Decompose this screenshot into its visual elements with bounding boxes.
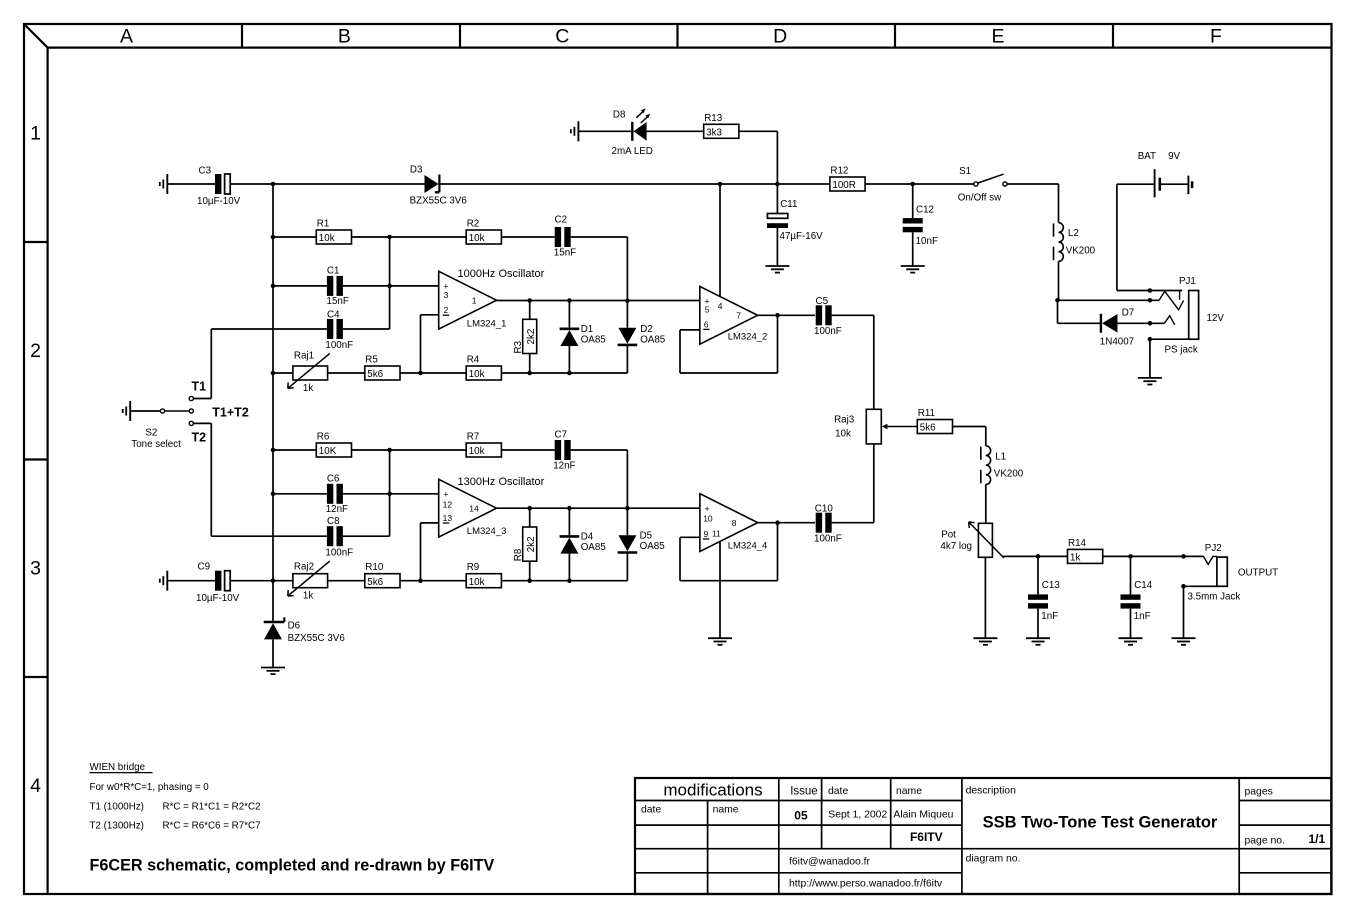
diode D3 zener (410, 164, 468, 206)
wire R12 to S1 (865, 183, 974, 185)
svg-text:100R: 100R (832, 180, 855, 191)
svg-text:R10: R10 (365, 562, 384, 573)
node vert2/C6 (387, 492, 392, 497)
svg-text:C14: C14 (1134, 580, 1153, 591)
wire minus input U3 (421, 523, 439, 581)
svg-text:12nF: 12nF (326, 504, 348, 515)
svg-text:1k: 1k (303, 591, 313, 602)
svg-text:13: 13 (443, 513, 453, 523)
wire U2 output (758, 313, 815, 318)
svg-text:LM324_2: LM324_2 (728, 332, 768, 343)
diode D1 (560, 324, 607, 375)
LED D8 (578, 109, 703, 158)
svg-text:47µF-16V: 47µF-16V (780, 231, 824, 242)
svg-text:1/1: 1/1 (1309, 832, 1326, 846)
svg-text:SSB Two-Tone Test Generator: SSB Two-Tone Test Generator (983, 813, 1218, 831)
ground (973, 638, 997, 645)
capacitor C10 (814, 444, 874, 545)
svg-text:R1: R1 (317, 219, 330, 230)
node bus/Raj2 (271, 578, 293, 583)
svg-text:3: 3 (444, 290, 449, 300)
svg-text:Raj3: Raj3 (834, 414, 855, 425)
op-amp U2 LM324_2 (700, 286, 768, 344)
svg-text:page no.: page no. (1245, 835, 1285, 846)
ground (123, 401, 131, 421)
svg-text:5: 5 (705, 304, 710, 314)
op-amp U1 LM324_1 (439, 268, 545, 329)
svg-text:T2 (1300Hz): T2 (1300Hz) (90, 820, 144, 831)
diode D2 (618, 324, 666, 373)
svg-text:date: date (828, 786, 848, 797)
svg-text:On/Off sw: On/Off sw (958, 192, 1002, 203)
wire R7 to C7 (501, 449, 554, 451)
node out1/D1 (567, 298, 572, 329)
svg-text:name: name (713, 804, 739, 815)
wire pin4 supply LM324_2 (718, 182, 723, 297)
svg-text:PJ1: PJ1 (1179, 276, 1196, 287)
resistor R4 (466, 355, 501, 381)
svg-text:T1 (1000Hz): T1 (1000Hz) (90, 801, 144, 812)
resistor R9 (466, 562, 501, 588)
svg-text:R*C = R6*C6 = R7*C7: R*C = R6*C6 = R7*C7 (163, 820, 261, 831)
svg-text:f6itv@wanadoo.fr: f6itv@wanadoo.fr (789, 856, 871, 867)
capacitor C3 (167, 165, 424, 207)
svg-text:D8: D8 (613, 110, 626, 121)
svg-text:C12: C12 (916, 204, 934, 215)
svg-text:date: date (641, 804, 661, 815)
svg-text:C13: C13 (1042, 580, 1061, 591)
svg-text:R*C = R1*C1 = R2*C2: R*C = R1*C1 = R2*C2 (163, 801, 261, 812)
svg-text:modifications: modifications (663, 780, 762, 799)
svg-text:10: 10 (703, 514, 713, 524)
svg-text:F6ITV: F6ITV (910, 830, 943, 844)
svg-text:description: description (966, 786, 1016, 797)
op-amp U4 LM324_4 (700, 494, 767, 552)
svg-text:1300Hz Oscillator: 1300Hz Oscillator (458, 476, 545, 488)
svg-text:+: + (443, 490, 448, 500)
svg-text:10µF-10V: 10µF-10V (197, 196, 241, 207)
svg-text:1k: 1k (303, 383, 313, 394)
svg-text:3: 3 (30, 557, 41, 579)
svg-text:B: B (338, 26, 351, 48)
svg-text:BAT: BAT (1138, 151, 1156, 162)
wire main bus vertical (272, 184, 274, 622)
svg-text:R2: R2 (467, 219, 480, 230)
capacitor C7 (553, 429, 627, 508)
diode D5 (618, 531, 666, 581)
capacitor C13 (1028, 556, 1060, 638)
node vert2/R6 (387, 448, 392, 537)
svg-text:OUTPUT: OUTPUT (1238, 567, 1278, 578)
resistor R1 (316, 219, 351, 245)
svg-text:1k: 1k (1070, 553, 1080, 564)
svg-text:BZX55C 3V6: BZX55C 3V6 (288, 633, 346, 644)
svg-text:5k6: 5k6 (367, 369, 383, 380)
resistor R2 (466, 219, 501, 245)
node out2/D5 (625, 506, 630, 535)
svg-text:Pot: Pot (941, 529, 956, 540)
svg-text:C8: C8 (327, 516, 340, 527)
svg-text:9V: 9V (1168, 151, 1180, 162)
svg-text:diagram no.: diagram no. (966, 854, 1021, 865)
svg-text:A: A (120, 26, 133, 48)
svg-text:2mA LED: 2mA LED (612, 146, 653, 157)
svg-text:C7: C7 (555, 429, 568, 440)
wire R2 to C2 (501, 236, 554, 238)
svg-text:14: 14 (469, 504, 479, 514)
svg-text:C6: C6 (327, 474, 340, 485)
svg-text:10k: 10k (469, 369, 485, 380)
svg-text:L2: L2 (1068, 228, 1079, 239)
svg-text:VK200: VK200 (1066, 245, 1096, 256)
svg-text:R5: R5 (365, 355, 378, 366)
node D7/PJ1 junction (1148, 321, 1153, 326)
svg-text:Raj2: Raj2 (294, 562, 314, 573)
node bus/C1 (271, 284, 327, 289)
svg-text:1nF: 1nF (1134, 611, 1151, 622)
svg-text:C: C (555, 26, 569, 48)
node bus/R6 (271, 448, 317, 453)
node L2/PJ1 junction (1055, 298, 1159, 303)
wire rail D3 to R12 (439, 183, 830, 185)
svg-text:1: 1 (472, 296, 477, 306)
svg-text:05: 05 (794, 809, 808, 823)
svg-text:R4: R4 (467, 355, 480, 366)
svg-text:For w0*R*C=1, phasing = 0: For w0*R*C=1, phasing = 0 (90, 782, 210, 793)
node bus/C6 (271, 492, 327, 497)
svg-text:12nF: 12nF (553, 460, 575, 471)
wire U1 output (497, 300, 700, 302)
svg-text:4: 4 (718, 301, 723, 311)
connector PJ1 PS jack (1159, 276, 1224, 355)
node PJ1 sleeve junction (1148, 337, 1189, 378)
wire L2 node to D7 (1058, 300, 1101, 323)
svg-text:WIEN bridge: WIEN bridge (90, 762, 146, 773)
svg-text:C4: C4 (327, 310, 340, 321)
svg-text:D: D (773, 26, 787, 48)
svg-text:1: 1 (30, 122, 41, 144)
svg-text:8: 8 (732, 518, 737, 528)
node vert2/R1 (387, 235, 392, 329)
node C14 junction (1128, 554, 1133, 559)
diode D7 (1100, 308, 1165, 348)
wire R13 to rail (739, 131, 778, 184)
ground (160, 571, 168, 591)
node Vref - junction C3/bus (271, 182, 276, 187)
svg-text:OA85: OA85 (640, 541, 666, 552)
resistor R12 (830, 166, 865, 192)
svg-text:10k: 10k (835, 428, 851, 439)
svg-text:S2: S2 (145, 427, 157, 438)
inductor L1 (981, 446, 1024, 485)
wire U4 output (758, 520, 815, 525)
svg-text:D3: D3 (410, 164, 423, 175)
svg-text:5k6: 5k6 (920, 423, 936, 434)
svg-text:D6: D6 (288, 620, 301, 631)
svg-text:T2: T2 (192, 430, 207, 444)
resistor R13 (704, 113, 739, 139)
svg-text:pages: pages (1245, 786, 1273, 797)
wire L1 to Pot (985, 484, 987, 523)
node C12 junction (910, 182, 915, 187)
resistor R6 (316, 432, 351, 458)
svg-text:10k: 10k (469, 446, 485, 457)
ground (708, 638, 732, 645)
resistor R8 (513, 527, 537, 561)
node minus1 junction (418, 371, 423, 376)
svg-text:100nF: 100nF (814, 326, 842, 337)
svg-text:12V: 12V (1207, 313, 1225, 324)
diode D6 zener (264, 617, 346, 667)
svg-text:LM324_4: LM324_4 (728, 541, 768, 552)
svg-text:10k: 10k (469, 233, 485, 244)
title block text (641, 780, 1326, 889)
wire Raj3 wiper to R11 (882, 424, 918, 430)
svg-text:R9: R9 (467, 562, 480, 573)
wire L2 to node (1058, 261, 1060, 300)
wire T2 select to C8 (211, 423, 327, 536)
wire U2 feedback loop (680, 315, 778, 373)
svg-text:3k3: 3k3 (706, 128, 722, 139)
wire R11 to L1 (953, 427, 986, 446)
svg-text:F: F (1210, 26, 1222, 48)
svg-text:1nF: 1nF (1041, 611, 1058, 622)
svg-text:Alain Miqueu: Alain Miqueu (893, 809, 953, 820)
svg-text:2: 2 (444, 305, 449, 315)
svg-text:R3: R3 (513, 340, 524, 353)
capacitor C12 (903, 184, 938, 266)
wire U3 output (497, 507, 700, 509)
svg-text:100nF: 100nF (325, 547, 353, 558)
svg-text:10nF: 10nF (916, 236, 938, 247)
svg-text:2k2: 2k2 (526, 536, 537, 552)
svg-text:D1: D1 (581, 324, 594, 335)
capacitor C8 (325, 516, 389, 558)
svg-text:4: 4 (30, 775, 41, 797)
svg-text:PJ2: PJ2 (1205, 543, 1222, 554)
svg-text:C3: C3 (199, 165, 212, 176)
svg-text:C9: C9 (198, 562, 211, 573)
wire minus input U1 (421, 315, 439, 373)
svg-text:R8: R8 (513, 548, 524, 561)
node bus/Raj1 (271, 371, 293, 376)
wire R5 to R4 (400, 372, 466, 374)
svg-text:OA85: OA85 (581, 542, 607, 553)
capacitor C14 (1121, 556, 1153, 638)
capacitor C2 (554, 215, 628, 301)
wire Raj1 to R5 (328, 372, 365, 374)
svg-text:12: 12 (443, 500, 453, 510)
svg-text:PS jack: PS jack (1165, 344, 1198, 355)
connector PJ2 3.5mm jack (1188, 543, 1279, 602)
svg-text:D7: D7 (1122, 308, 1135, 319)
wire pin11 U4 to ground (719, 542, 721, 639)
resistor R14 (1068, 538, 1103, 564)
svg-text:OA85: OA85 (640, 335, 666, 346)
svg-text:S1: S1 (959, 166, 971, 177)
wire R8 to rail (527, 561, 532, 583)
switch S2 tone select (130, 380, 249, 451)
ground (571, 121, 579, 141)
wire R9 to D5 bottom rail (501, 580, 627, 582)
wire R6 to R7 (352, 449, 467, 451)
svg-text:D2: D2 (640, 324, 653, 335)
node out1/D2 (625, 298, 630, 328)
node battery/PJ1 junction (1117, 288, 1182, 293)
svg-text:C10: C10 (815, 504, 834, 515)
ground (901, 266, 925, 273)
wire Raj2 to R10 (328, 580, 365, 582)
resistor R5 (365, 355, 400, 381)
wire R3 to rail (527, 354, 532, 376)
svg-text:C2: C2 (555, 215, 568, 226)
ground (1172, 638, 1196, 645)
svg-text:Tone select: Tone select (131, 439, 181, 450)
svg-text:2k2: 2k2 (526, 329, 537, 345)
capacitor C6 (326, 474, 439, 516)
svg-text:C5: C5 (816, 296, 829, 307)
node out2/D4 (567, 506, 572, 537)
wire R10 to R9 (400, 580, 466, 582)
node vert2/C1 (387, 284, 392, 289)
svg-text:Sept 1, 2002: Sept 1, 2002 (828, 809, 887, 820)
svg-text:R7: R7 (467, 432, 480, 443)
svg-text:+: + (705, 504, 710, 514)
svg-text:9: 9 (704, 529, 709, 539)
svg-text:E: E (992, 26, 1005, 48)
wire T1 select to C4 (211, 329, 327, 399)
svg-text:4k7 log: 4k7 log (940, 541, 972, 552)
capacitor C1 (327, 266, 439, 308)
potentiometer Pot 4k7 log (940, 522, 1004, 638)
svg-text:R13: R13 (704, 113, 723, 124)
diode D4 (560, 532, 607, 583)
node out2/R8 (527, 506, 532, 527)
svg-text:7: 7 (736, 311, 741, 321)
svg-text:15nF: 15nF (554, 248, 576, 259)
resistor R7 (466, 432, 501, 458)
svg-text:1000Hz Oscillator: 1000Hz Oscillator (458, 268, 545, 280)
svg-text:100nF: 100nF (814, 534, 842, 545)
resistor R11 (917, 408, 952, 434)
svg-text:1N4007: 1N4007 (1100, 336, 1134, 347)
svg-text:BZX55C 3V6: BZX55C 3V6 (410, 195, 468, 206)
svg-text:name: name (896, 786, 922, 797)
svg-text:3.5mm Jack: 3.5mm Jack (1188, 591, 1241, 602)
svg-text:R6: R6 (317, 432, 330, 443)
capacitor C9 (167, 562, 273, 605)
ground (1138, 378, 1162, 385)
svg-text:D5: D5 (640, 531, 653, 542)
svg-text:L1: L1 (995, 451, 1006, 462)
svg-text:T1: T1 (192, 380, 207, 394)
capacitor C5 (814, 296, 874, 409)
svg-text:5k6: 5k6 (367, 577, 383, 588)
wire U4 feedback loop (680, 523, 778, 581)
svg-text:R12: R12 (830, 166, 848, 177)
node out1/R3 (527, 298, 532, 319)
note WIEN bridge (90, 762, 495, 875)
svg-text:11: 11 (712, 529, 721, 539)
svg-text:LM324_1: LM324_1 (467, 318, 507, 329)
svg-text:http://www.perso.wanadoo.fr/f6: http://www.perso.wanadoo.fr/f6itv (789, 878, 943, 889)
trimmer Raj1 (288, 350, 330, 394)
switch S1 (958, 166, 1007, 203)
wire R1 to R2 (352, 236, 467, 238)
svg-text:Issue: Issue (790, 786, 818, 798)
wire S1 to L2 (1007, 184, 1059, 223)
ground (261, 668, 285, 675)
wire pot wiper to R14 (1003, 555, 1068, 557)
capacitor C11 electrolytic (767, 184, 823, 266)
svg-text:D4: D4 (581, 532, 594, 543)
svg-text:10k: 10k (469, 577, 485, 588)
node C13 junction (1036, 554, 1041, 559)
resistor R3 (513, 319, 537, 353)
svg-text:10µF-10V: 10µF-10V (196, 593, 240, 604)
capacitor C4 (325, 310, 389, 352)
svg-text:R14: R14 (1068, 538, 1087, 549)
svg-text:VK200: VK200 (994, 468, 1024, 479)
node bus/R1 (271, 235, 317, 240)
svg-text:10K: 10K (319, 446, 337, 457)
svg-text:T1+T2: T1+T2 (212, 406, 249, 420)
svg-text:OA85: OA85 (581, 335, 607, 346)
wire R14 to PJ2 (1103, 555, 1204, 557)
ground (765, 266, 789, 273)
svg-text:10k: 10k (319, 233, 335, 244)
ground (1026, 638, 1050, 645)
node R13/C11 junction (775, 182, 780, 187)
battery BAT 9V (1117, 151, 1192, 290)
svg-text:15nF: 15nF (327, 296, 349, 307)
svg-text:6: 6 (704, 319, 709, 329)
svg-text:R11: R11 (918, 408, 935, 419)
op-amp U3 LM324_3 (439, 476, 545, 537)
node minus2 junction (418, 578, 423, 583)
svg-text:100nF: 100nF (325, 340, 353, 351)
svg-text:C1: C1 (327, 266, 340, 277)
node PJ2 sleeve junction (1181, 584, 1217, 638)
contact PJ1 lower spring (1164, 316, 1174, 325)
trimmer Raj2 (288, 561, 330, 602)
svg-text:LM324_3: LM324_3 (467, 526, 507, 537)
node PJ2 tip junction (1181, 554, 1186, 559)
svg-text:C11: C11 (780, 199, 797, 210)
wire R4 to D2 bottom rail (501, 372, 627, 374)
title block (635, 778, 1331, 894)
ground (1119, 638, 1143, 645)
svg-text:Raj1: Raj1 (294, 350, 314, 361)
trimmer Raj3 (834, 409, 881, 444)
inductor L2 (1054, 223, 1096, 262)
svg-text:2: 2 (30, 340, 41, 362)
svg-text:F6CER schematic, completed and: F6CER schematic, completed and re-drawn … (90, 857, 495, 875)
resistor R10 (365, 562, 400, 588)
ground (160, 174, 168, 194)
